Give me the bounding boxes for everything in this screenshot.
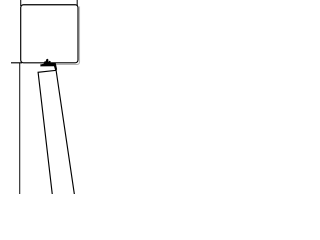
left pole lower (19, 63, 21, 194)
right pole (76, 0, 78, 6)
rear leg (38, 70, 74, 194)
board (21, 5, 78, 63)
left pole (20, 0, 22, 6)
hinge clamp (40, 59, 57, 71)
board bottom ledge (11, 62, 22, 64)
board shadow (40, 7, 80, 65)
